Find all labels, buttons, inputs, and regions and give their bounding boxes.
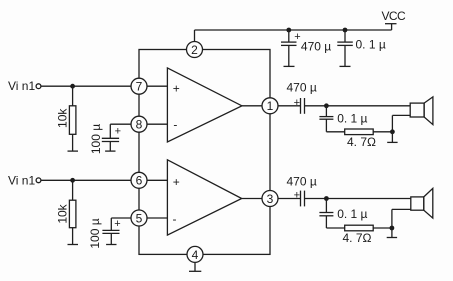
svg-text:Vi n1: Vi n1	[8, 173, 35, 187]
svg-text:7: 7	[136, 80, 143, 94]
capacitor C5 470u	[294, 97, 305, 114]
ground C1	[105, 142, 115, 152]
ground node B2	[387, 228, 397, 238]
wire C6 to R3	[326, 119, 344, 132]
svg-text:+: +	[173, 81, 180, 95]
svg-text:470 µ: 470 µ	[287, 81, 317, 95]
wire pin3 to C7	[279, 198, 301, 200]
svg-text:10k: 10k	[56, 108, 70, 128]
wire input top to R1	[72, 86, 74, 106]
capacitor C7 470u	[294, 190, 305, 207]
wire pin1 to C5	[279, 105, 301, 107]
resistor R4 4.7ohm	[345, 225, 374, 231]
pin 3	[262, 191, 278, 207]
node A2	[324, 196, 329, 201]
wire C5 to speaker LS1	[305, 105, 411, 107]
pin 1	[262, 98, 278, 114]
wire pin7 to U1A	[148, 85, 168, 87]
svg-text:100 µ: 100 µ	[89, 124, 103, 154]
svg-text:3: 3	[267, 192, 274, 206]
svg-text:-: -	[173, 212, 177, 226]
svg-text:VCC: VCC	[382, 9, 406, 23]
pin 6	[131, 172, 147, 188]
pin 7	[131, 78, 147, 94]
svg-text:+: +	[294, 97, 300, 109]
resistor R3 4.7ohm	[345, 129, 374, 135]
ground node B	[387, 132, 397, 143]
svg-text:100 µ: 100 µ	[88, 218, 102, 248]
wire VCC rail	[195, 29, 392, 31]
ground C2	[106, 233, 116, 244]
pin 8	[131, 116, 147, 132]
wire pin8 to C1	[110, 124, 130, 138]
svg-text:470 µ: 470 µ	[287, 174, 317, 188]
capacitor C1 100u	[102, 125, 121, 141]
node B	[390, 129, 395, 134]
ground C3	[284, 62, 295, 67]
VCC terminal bar	[385, 23, 397, 25]
speaker LS2	[411, 188, 433, 218]
svg-text:+: +	[115, 125, 121, 137]
wire U1A out to pin1	[242, 105, 262, 107]
svg-text:+: +	[294, 31, 300, 43]
wire pin8 to U1A	[148, 123, 168, 125]
svg-text:8: 8	[136, 118, 143, 132]
wire node A to C6	[325, 106, 327, 117]
svg-text:0. 1 µ: 0. 1 µ	[337, 112, 367, 126]
wire input top	[41, 85, 131, 87]
wire input bottom to R2	[72, 180, 74, 200]
capacitor C8 0.1u	[319, 213, 333, 216]
capacitor C4 0.1u	[337, 30, 353, 62]
wire pin5 to C2	[111, 218, 130, 230]
speaker LS1	[410, 97, 433, 125]
svg-text:10k: 10k	[56, 203, 70, 223]
ground R1	[68, 134, 79, 151]
wire input bottom	[41, 179, 131, 181]
wire C7 to speaker LS2	[305, 198, 411, 200]
ground C4	[340, 62, 351, 67]
pin 4	[187, 246, 203, 262]
svg-text:+: +	[173, 175, 180, 189]
svg-text:4. 7Ω: 4. 7Ω	[343, 231, 372, 245]
op-amp U1B	[167, 160, 241, 235]
wire VCC drop	[391, 24, 393, 30]
ground pin4	[189, 263, 201, 271]
svg-text:+: +	[294, 190, 300, 202]
svg-text:2: 2	[191, 43, 198, 57]
node B2	[390, 226, 395, 231]
IC U1 outline	[139, 50, 270, 255]
op-amp U1A	[167, 68, 242, 142]
pin 2	[187, 42, 203, 58]
svg-text:+: +	[114, 218, 120, 230]
wire R3 to node B	[373, 131, 392, 133]
wire pin6 to U1B	[148, 179, 168, 181]
wire U1B out to pin3	[242, 198, 262, 200]
wire node B to speaker LS1	[392, 115, 410, 131]
svg-text:6: 6	[136, 174, 143, 188]
node rail-C3	[286, 28, 291, 33]
wire pin5 to U1B	[148, 217, 168, 219]
svg-text:4: 4	[192, 248, 199, 262]
svg-text:1: 1	[267, 99, 274, 113]
wire R4 to node B2	[373, 227, 392, 229]
resistor R2 10k	[69, 200, 76, 228]
pin 5	[131, 210, 147, 226]
node A	[324, 103, 329, 108]
terminal input bottom	[36, 178, 41, 183]
wire node A2 to C8	[325, 199, 327, 213]
ground R2	[68, 228, 79, 245]
resistor R1 10k	[69, 106, 76, 135]
svg-text:-: -	[173, 118, 177, 132]
svg-text:5: 5	[136, 211, 143, 225]
svg-text:470 µ: 470 µ	[301, 40, 331, 54]
node input top	[70, 84, 75, 89]
node input bottom	[70, 178, 75, 183]
terminal input top	[36, 84, 41, 89]
capacitor C2 100u	[102, 218, 120, 233]
svg-text:Vi n1: Vi n1	[8, 79, 35, 93]
wire pin2 riser	[194, 30, 196, 41]
svg-text:0. 1 µ: 0. 1 µ	[337, 207, 367, 221]
wire C8 to R4	[326, 216, 344, 228]
wire node B2 to speaker LS2	[392, 209, 411, 228]
capacitor C6 0.1u	[319, 117, 333, 120]
capacitor C3 470u	[281, 30, 301, 62]
node rail-C4	[343, 28, 348, 33]
svg-text:0. 1 µ: 0. 1 µ	[356, 37, 386, 51]
svg-text:4. 7Ω: 4. 7Ω	[347, 135, 376, 149]
